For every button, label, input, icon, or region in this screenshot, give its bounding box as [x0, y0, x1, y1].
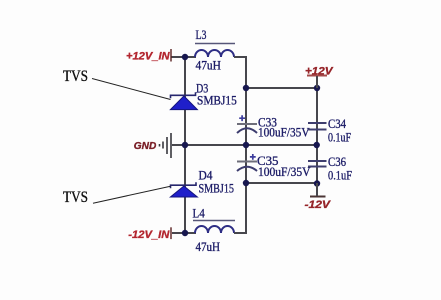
- svg-text:L4: L4: [193, 206, 206, 221]
- TVS diode D4: [170, 182, 197, 197]
- junction right rail +12V wire: [314, 85, 320, 91]
- wire left rail vertical: [245, 56, 247, 234]
- junction right rail GND wire: [314, 142, 320, 148]
- power port +12V_IN pin tick: [170, 49, 172, 62]
- power port -12V bar: [310, 196, 326, 198]
- wire -12V_IN stub to L4: [172, 232, 196, 234]
- callout line TVS to D4: [93, 186, 171, 203]
- wire -12V horizontal: [246, 182, 317, 184]
- wire GND horizontal: [172, 144, 317, 146]
- junction at GND node on TVS wire: [182, 142, 188, 148]
- wire right rail vertical: [316, 76, 318, 196]
- wire L3 to left rail corner: [234, 56, 247, 58]
- svg-text:0.1uF: 0.1uF: [328, 168, 352, 183]
- capacitor C36: [308, 161, 327, 167]
- TVS diode D3: [170, 92, 197, 109]
- capacitor C33: [237, 115, 257, 133]
- power port +12V stub: [316, 76, 318, 88]
- svg-text:100uF/35V: 100uF/35V: [258, 125, 310, 140]
- L4 designator underline: [193, 220, 235, 222]
- svg-text:SMBJ15: SMBJ15: [199, 181, 235, 196]
- svg-text:GND: GND: [134, 141, 157, 152]
- junction at -12V_IN node: [182, 230, 188, 236]
- inductor L4: [195, 226, 234, 233]
- junction left rail -12V wire: [243, 180, 249, 186]
- wire L4 to left rail corner: [234, 232, 247, 234]
- svg-text:+12V_IN: +12V_IN: [126, 50, 171, 62]
- callout line TVS to D3: [92, 79, 171, 100]
- power port GND symbol: [160, 133, 172, 158]
- junction right rail -12V wire: [314, 180, 320, 186]
- capacitor C34: [308, 123, 327, 130]
- inductor L3: [195, 50, 234, 57]
- svg-text:L3: L3: [196, 27, 207, 42]
- power port -12V_IN pin tick: [170, 227, 172, 239]
- capacitor C35: [237, 154, 257, 171]
- L3 designator underline: [195, 43, 235, 45]
- svg-text:SMBJ15: SMBJ15: [197, 93, 237, 108]
- wire +12V horizontal: [246, 87, 317, 89]
- svg-text:-12V_IN: -12V_IN: [128, 229, 170, 241]
- svg-text:100uF/35V: 100uF/35V: [258, 164, 311, 179]
- svg-text:47uH: 47uH: [196, 58, 221, 73]
- power port -12V stub: [316, 183, 318, 196]
- junction left rail +12V wire: [243, 85, 249, 91]
- svg-text:47uH: 47uH: [196, 239, 221, 254]
- svg-text:-12V: -12V: [305, 199, 332, 211]
- junction at +12V_IN node: [182, 54, 188, 60]
- svg-text:TVS: TVS: [63, 68, 88, 85]
- wire +12V_IN stub to L3: [171, 56, 196, 58]
- wire TVS vertical: [184, 57, 186, 233]
- junction left rail GND wire: [243, 142, 249, 148]
- svg-text:0.1uF: 0.1uF: [328, 130, 351, 145]
- svg-text:TVS: TVS: [63, 189, 88, 206]
- power port +12V bar: [307, 75, 327, 77]
